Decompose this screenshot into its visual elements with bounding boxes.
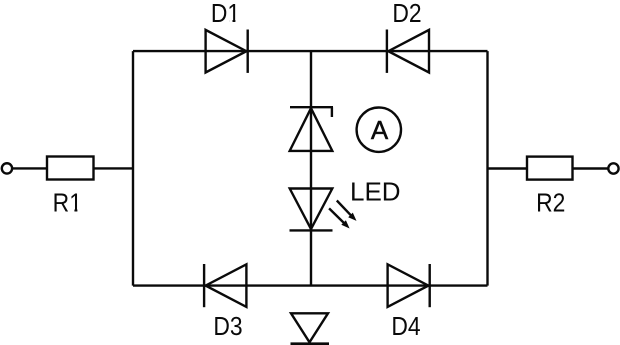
label R2 [536,189,565,218]
ammeter U1 circle [357,108,401,152]
wire: right node to R2 [488,167,528,169]
svg-text:R2: R2 [536,189,565,218]
wire: bottom rail [133,284,488,286]
wire: R1 to left node [94,167,134,169]
wire: left vertical branch [132,51,134,286]
LED emission arrow 1 [337,201,357,221]
wire: top rail [133,50,488,52]
label D4 [391,313,420,342]
svg-text:LED: LED [350,177,401,207]
label LED [350,177,401,207]
zener diode (middle branch, cathode bar with bent end) [290,107,333,151]
diode D2 [387,30,429,73]
label D2 [392,0,421,28]
label R1 [53,189,82,218]
label D1 [211,0,240,28]
diode D1 [206,30,248,73]
wire: middle vertical branch [310,51,312,286]
wire: R2 to right terminal [573,167,614,169]
diode D4 [388,264,430,307]
svg-text:D2: D2 [392,0,421,28]
svg-text:R1: R1 [53,189,82,218]
diode D3 [204,264,246,307]
mask: remove serif foot of digit 1 in R1 [71,209,82,212]
resistor R2 [527,157,573,180]
LED emission arrow 2 [329,208,350,228]
ground symbol (bottom partial diode triangle) [291,313,330,344]
LED (middle branch) [290,189,333,231]
wire: left terminal lead [7,167,47,169]
resistor R1 [47,157,94,180]
label D3 [213,313,242,342]
label A (ammeter) [371,115,389,145]
terminal (left input) [2,163,12,173]
svg-text:A: A [371,115,389,145]
svg-text:D1: D1 [211,0,240,28]
svg-text:D3: D3 [213,313,242,342]
wire: right vertical branch [486,51,488,286]
mask: remove serif foot of digit 1 in D1 [229,20,239,23]
terminal (right output) [608,163,618,173]
svg-text:D4: D4 [391,313,420,342]
